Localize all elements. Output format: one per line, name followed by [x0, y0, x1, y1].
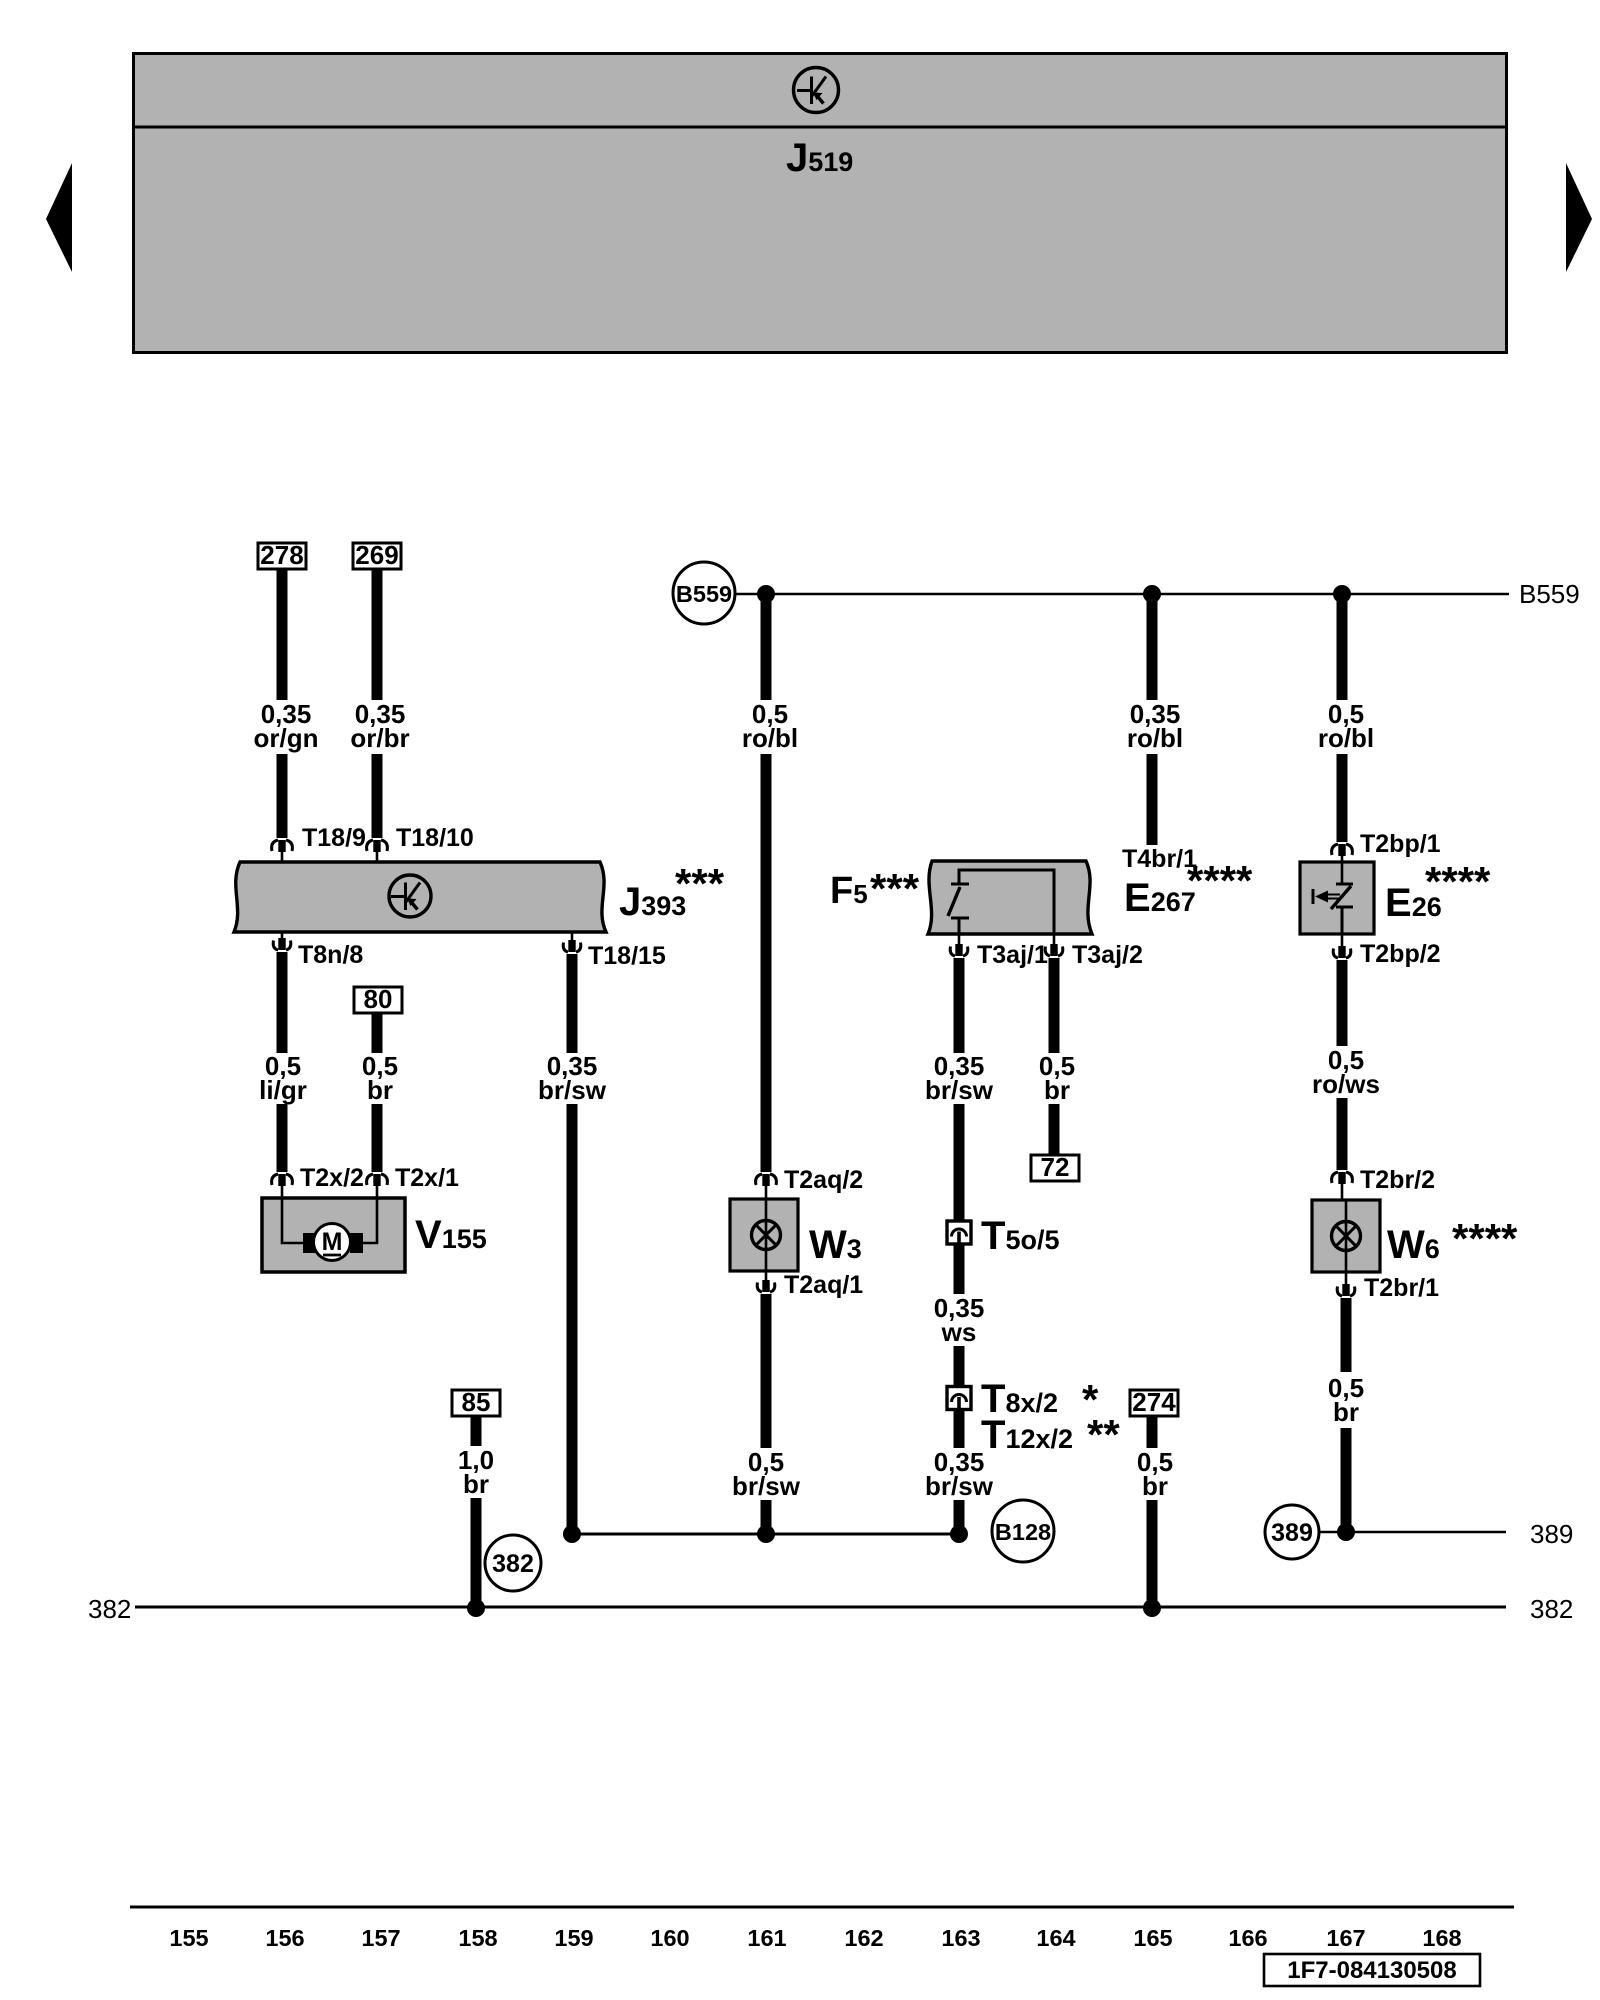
node circle 382: [485, 1535, 541, 1591]
svg-text:T2bp/2: T2bp/2: [1360, 940, 1441, 968]
wire 80 upper segment: [372, 1013, 383, 1053]
svg-text:157: 157: [361, 1925, 400, 1951]
svg-text:M: M: [322, 1228, 343, 1256]
wire 274 upper segment: [1147, 1416, 1158, 1448]
connector pin T2br/2: [1332, 1172, 1353, 1200]
wire down to T2br/2: [1337, 1098, 1348, 1170]
wire 269 lower segment: [372, 754, 383, 838]
wire down to T2aq/2: [761, 754, 772, 1172]
svg-text:br: br: [1333, 1397, 1359, 1427]
svg-text:382: 382: [492, 1550, 534, 1578]
svg-text:85: 85: [462, 1387, 491, 1417]
svg-text:***: ***: [870, 865, 920, 912]
svg-text:163: 163: [941, 1925, 980, 1951]
svg-text:T4br/1: T4br/1: [1122, 845, 1197, 873]
control unit J519 box: [132, 54, 1508, 353]
svg-text:274: 274: [1132, 1387, 1176, 1417]
wire T18/15 long segment down: [567, 1104, 578, 1534]
label V155: [415, 1213, 487, 1257]
svg-text:ro/bl: ro/bl: [742, 723, 798, 753]
svg-text:F5: F5: [830, 870, 868, 912]
motor V155 box: [262, 1198, 405, 1272]
wire E26 to W6 upper: [1337, 960, 1348, 1046]
svg-text:W3: W3: [809, 1223, 862, 1267]
connector pin T3aj/1: [950, 934, 968, 956]
svg-text:382: 382: [1530, 1594, 1573, 1624]
svg-text:T2x/1: T2x/1: [395, 1164, 459, 1192]
svg-text:T3aj/2: T3aj/2: [1072, 941, 1143, 969]
wire T3aj/1 down: [954, 958, 965, 1053]
wire to junction line (track 163): [954, 1500, 965, 1534]
svg-text:br: br: [1044, 1075, 1070, 1105]
connector pin T18/10: [367, 840, 388, 862]
wire T5o/5 down: [954, 1244, 965, 1294]
connector pin T2x/2: [272, 1174, 293, 1198]
wire B559 to W3 upper: [761, 594, 772, 700]
terminal box 278: [258, 540, 306, 570]
control unit J393 box: [234, 862, 606, 932]
terminal box 269: [353, 540, 401, 570]
389 wire line: [1319, 1531, 1506, 1534]
inline connector T8x/2: [947, 1387, 971, 1410]
svg-text:ro/bl: ro/bl: [1318, 723, 1374, 753]
wire T8x/2 down: [954, 1410, 965, 1448]
svg-text:br: br: [463, 1469, 489, 1499]
wire to T2x/2: [277, 1104, 288, 1172]
svg-text:155: 155: [169, 1925, 208, 1951]
svg-text:B559: B559: [676, 581, 732, 607]
svg-text:T18/10: T18/10: [396, 824, 474, 852]
node circle B559: [673, 562, 735, 624]
junction dot track 159: [563, 1525, 581, 1543]
svg-text:****: ****: [1425, 858, 1491, 905]
svg-text:72: 72: [1041, 1152, 1070, 1182]
W6 lamp symbol: [1332, 1222, 1361, 1251]
wire to junction line: [761, 1500, 772, 1534]
svg-text:T18/15: T18/15: [588, 942, 666, 970]
junction dot 389: [1337, 1523, 1355, 1541]
svg-text:B559: B559: [1519, 579, 1580, 609]
diagram number box 1F7-084130508: [1264, 1954, 1480, 1986]
terminal box 72: [1031, 1152, 1079, 1182]
connector pin T2x/1: [367, 1174, 388, 1198]
lamp W6 box: [1312, 1200, 1380, 1272]
V155 internal wiring: [282, 1198, 377, 1243]
F5 switch contacts: [948, 884, 969, 934]
svg-text:T5o/5: T5o/5: [981, 1214, 1059, 1258]
svg-text:br/sw: br/sw: [925, 1075, 994, 1105]
svg-text:V155: V155: [415, 1213, 487, 1257]
track numbers: [169, 1925, 1461, 1951]
svg-text:W6: W6: [1387, 1223, 1440, 1267]
svg-text:269: 269: [355, 540, 398, 570]
terminal box 274: [1130, 1387, 1178, 1417]
junction on B559 track 161: [757, 585, 775, 603]
svg-text:T2x/2: T2x/2: [300, 1164, 364, 1192]
svg-text:167: 167: [1326, 1925, 1365, 1951]
svg-text:278: 278: [260, 540, 303, 570]
svg-text:br/sw: br/sw: [732, 1471, 801, 1501]
connector pin T3aj/2: [1045, 934, 1063, 956]
wire to 389 junction: [1341, 1428, 1352, 1532]
right continuation arrow: [1566, 163, 1592, 272]
wire to T8x/2: [954, 1346, 965, 1386]
junction dot track 158 on 382: [467, 1599, 485, 1617]
svg-text:ro/ws: ro/ws: [1312, 1069, 1380, 1099]
connector pin T8n/8: [273, 932, 291, 950]
wire 278 upper segment: [277, 568, 288, 700]
connector pin T2bp/2: [1333, 934, 1351, 958]
svg-text:80: 80: [364, 984, 393, 1014]
svg-text:br: br: [367, 1075, 393, 1105]
label F5 ***: [830, 865, 920, 912]
svg-text:T12x/2: T12x/2: [981, 1413, 1073, 1457]
svg-text:166: 166: [1228, 1925, 1267, 1951]
wire to T2x/1: [372, 1104, 383, 1172]
junction dot track 161: [757, 1525, 775, 1543]
svg-text:382: 382: [88, 1594, 131, 1624]
wire T3aj/2 down: [1049, 958, 1060, 1053]
junction dot track 163: [950, 1525, 968, 1543]
svg-text:T8n/8: T8n/8: [298, 941, 363, 969]
wire T18/15 upper segment: [567, 954, 578, 1053]
switch E26 box: [1300, 862, 1374, 934]
svg-text:T2aq/1: T2aq/1: [784, 1271, 863, 1299]
label J393 ***: [619, 860, 725, 924]
svg-text:158: 158: [458, 1925, 497, 1951]
V155 motor symbol M: [314, 1224, 351, 1261]
svg-text:E267: E267: [1124, 876, 1196, 920]
svg-text:389: 389: [1271, 1519, 1313, 1547]
inline connector T5o/5: [947, 1221, 971, 1244]
node circle B128: [992, 1500, 1054, 1562]
connector pin T18/9: [272, 840, 293, 862]
W3 lamp symbol: [752, 1221, 781, 1250]
terminal box 80: [354, 984, 402, 1014]
wire T8n/8 segment: [277, 952, 288, 1053]
node circle 389: [1265, 1505, 1319, 1559]
svg-text:159: 159: [554, 1925, 593, 1951]
K-wire symbol in J393: [389, 875, 431, 917]
svg-text:**: **: [1087, 1411, 1120, 1458]
junction on B559 track 165: [1143, 585, 1161, 603]
wire B559 to E26 upper: [1337, 594, 1348, 700]
svg-text:ws: ws: [941, 1317, 977, 1347]
svg-text:T2br/1: T2br/1: [1364, 1274, 1439, 1302]
wire 85 to ground line: [471, 1498, 482, 1607]
svg-text:T18/9: T18/9: [302, 824, 366, 852]
svg-text:T2br/2: T2br/2: [1360, 1166, 1435, 1194]
K-wire symbol in J519: [794, 68, 839, 113]
svg-text:T2aq/2: T2aq/2: [784, 1166, 863, 1194]
svg-text:li/gr: li/gr: [259, 1075, 307, 1105]
svg-text:389: 389: [1530, 1519, 1573, 1549]
svg-text:T3aj/1: T3aj/1: [977, 941, 1048, 969]
connector pin T2bp/1: [1332, 844, 1353, 862]
wire 85 upper segment: [471, 1416, 482, 1446]
svg-text:****: ****: [1452, 1215, 1518, 1262]
wire 278 lower segment: [277, 754, 288, 838]
B559 horizontal wire: [735, 593, 1509, 596]
wire 269 upper segment: [372, 568, 383, 700]
svg-text:ro/bl: ro/bl: [1127, 723, 1183, 753]
wire W3 down: [761, 1294, 772, 1448]
terminal box 85: [452, 1387, 500, 1417]
svg-text:***: ***: [675, 860, 725, 907]
ground line 382: [135, 1606, 1506, 1609]
wire B559 to E267 upper: [1147, 594, 1158, 700]
switch F5 box: [928, 861, 1092, 934]
svg-text:****: ****: [1187, 857, 1253, 904]
W6 internal wire: [1345, 1200, 1348, 1272]
svg-text:1F7-084130508: 1F7-084130508: [1287, 1957, 1456, 1984]
wire to T5o/5: [954, 1104, 965, 1221]
junction on B559 track 167: [1333, 585, 1351, 603]
wire down to T4br/1: [1147, 754, 1158, 845]
svg-text:160: 160: [650, 1925, 689, 1951]
left continuation arrow: [46, 163, 72, 272]
wire down to T2bp/1: [1337, 754, 1348, 842]
W3 internal wire: [765, 1199, 768, 1271]
svg-text:br/sw: br/sw: [538, 1075, 607, 1105]
bottom ruler line: [130, 1906, 1514, 1909]
E26 switch symbol: [1313, 862, 1353, 934]
connector pin T2aq/2: [756, 1174, 777, 1199]
junction dot track 165 on 382: [1143, 1599, 1161, 1617]
svg-text:161: 161: [747, 1925, 786, 1951]
connector pin T2aq/1: [757, 1271, 775, 1292]
svg-text:or/gn: or/gn: [254, 723, 319, 753]
svg-text:or/br: or/br: [350, 723, 409, 753]
wire 274 to ground line: [1147, 1500, 1158, 1607]
V155 motor terminals: [303, 1233, 363, 1253]
label W3: [809, 1223, 862, 1267]
F5 internal circuit outline: [959, 870, 1054, 934]
svg-text:164: 164: [1036, 1925, 1075, 1951]
svg-text:165: 165: [1133, 1925, 1172, 1951]
wire W6 down: [1341, 1298, 1352, 1372]
svg-text:T2bp/1: T2bp/1: [1360, 830, 1441, 858]
lamp W3 box: [730, 1199, 798, 1271]
connector pin T18/15: [563, 932, 581, 952]
connector pin T2br/1: [1337, 1272, 1355, 1296]
wire to terminal 72: [1049, 1104, 1060, 1156]
svg-text:156: 156: [265, 1925, 304, 1951]
svg-text:br/sw: br/sw: [925, 1471, 994, 1501]
svg-text:B128: B128: [995, 1519, 1051, 1545]
svg-text:168: 168: [1422, 1925, 1461, 1951]
junction wire line to B128: [572, 1533, 959, 1536]
svg-text:162: 162: [844, 1925, 883, 1951]
svg-text:br: br: [1142, 1471, 1168, 1501]
